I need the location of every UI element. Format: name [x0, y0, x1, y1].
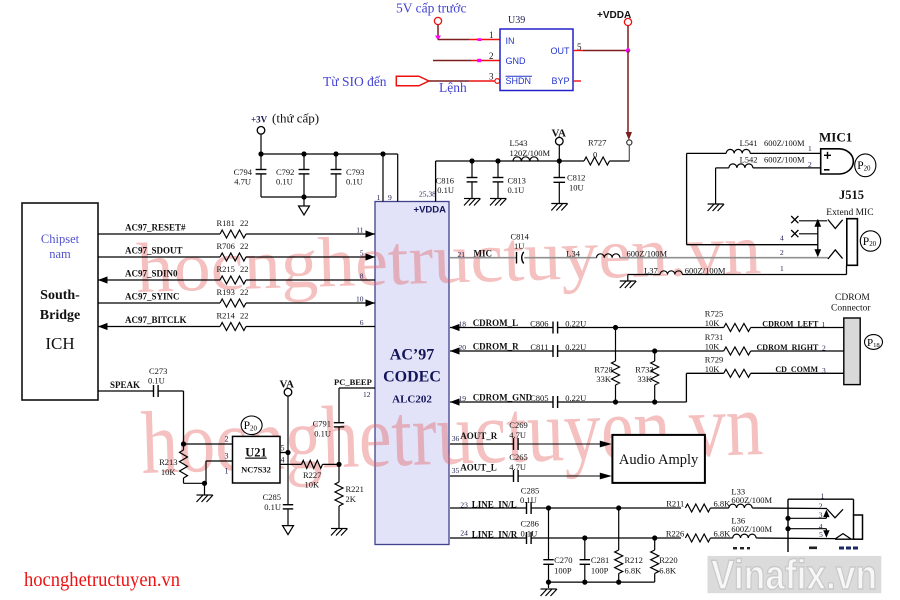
svg-text:LINE_IN/R: LINE_IN/R: [472, 529, 518, 539]
svg-text:2K: 2K: [346, 494, 357, 504]
svg-text:C805: C805: [530, 393, 548, 403]
svg-text:GND: GND: [506, 56, 527, 66]
svg-text:2: 2: [780, 248, 784, 257]
svg-text:2: 2: [225, 435, 229, 444]
svg-text:ICH: ICH: [45, 334, 74, 353]
svg-text:0.1U: 0.1U: [148, 376, 165, 386]
svg-text:22: 22: [240, 287, 249, 297]
svg-text:L542: L542: [740, 155, 758, 165]
svg-text:L34: L34: [566, 249, 580, 259]
svg-text:1U: 1U: [514, 241, 524, 251]
svg-text:6.8K: 6.8K: [659, 566, 677, 576]
svg-text:L541: L541: [740, 138, 758, 148]
svg-text:C265: C265: [509, 452, 527, 462]
svg-text:R181: R181: [217, 218, 235, 228]
svg-text:33K: 33K: [637, 374, 653, 384]
svg-text:MIC: MIC: [474, 249, 493, 259]
svg-text:C273: C273: [149, 366, 167, 376]
svg-text:1: 1: [821, 492, 825, 501]
svg-text:10K: 10K: [705, 318, 721, 328]
svg-text:0.1U: 0.1U: [521, 529, 538, 539]
svg-text:CDROM_RIGHT: CDROM_RIGHT: [757, 343, 819, 352]
svg-text:C816: C816: [436, 176, 454, 186]
svg-text:Connector: Connector: [831, 304, 871, 314]
svg-text:AC97_SYINC: AC97_SYINC: [125, 292, 180, 302]
svg-text:AC97_SDOUT: AC97_SDOUT: [125, 246, 183, 256]
svg-text:R727: R727: [588, 138, 606, 148]
svg-text:R725: R725: [705, 309, 723, 319]
svg-text:3: 3: [819, 511, 823, 520]
svg-text:CD_COMM: CD_COMM: [775, 365, 818, 374]
svg-text:23: 23: [460, 500, 468, 509]
svg-text:1: 1: [225, 467, 229, 476]
svg-text:IN: IN: [506, 36, 515, 46]
svg-text:SHDN: SHDN: [506, 76, 532, 86]
svg-text:U39: U39: [508, 15, 525, 26]
svg-text:C814: C814: [511, 232, 530, 242]
svg-text:35: 35: [452, 466, 460, 475]
svg-text:AC97_SDIN0: AC97_SDIN0: [125, 269, 178, 279]
svg-text:0.1U: 0.1U: [508, 185, 525, 195]
svg-text:0: 0: [593, 150, 597, 160]
svg-text:R215: R215: [217, 264, 235, 274]
svg-text:Vinafix.vn: Vinafix.vn: [711, 551, 877, 598]
svg-text:C286: C286: [521, 519, 539, 529]
svg-text:Audio Amply: Audio Amply: [619, 452, 699, 468]
svg-text:0.1U: 0.1U: [346, 177, 363, 187]
svg-text:C791: C791: [313, 419, 331, 429]
svg-text:22: 22: [240, 241, 249, 251]
svg-text:Bridge: Bridge: [40, 308, 80, 323]
svg-text:6.8K: 6.8K: [714, 529, 732, 539]
svg-text:600Z/100M: 600Z/100M: [764, 155, 805, 165]
svg-text:0.1U: 0.1U: [437, 185, 454, 195]
svg-text:C812: C812: [567, 173, 585, 183]
svg-text:C269: C269: [509, 420, 527, 430]
svg-text:10U: 10U: [569, 183, 584, 193]
svg-text:2: 2: [489, 51, 494, 61]
svg-text:R227: R227: [303, 470, 321, 480]
svg-text:33K: 33K: [596, 374, 612, 384]
svg-text:+3V: +3V: [251, 115, 268, 125]
svg-text:R731: R731: [705, 332, 723, 342]
svg-text:2: 2: [808, 160, 812, 169]
svg-text:R226: R226: [666, 529, 684, 539]
svg-text:AC97_BITCLK: AC97_BITCLK: [125, 315, 187, 325]
svg-text:R211: R211: [666, 499, 684, 509]
svg-text:10K: 10K: [705, 364, 721, 374]
svg-text:10K: 10K: [161, 467, 177, 477]
svg-text:5V cấp trước: 5V cấp trước: [396, 1, 466, 16]
svg-text:Chipset: Chipset: [41, 232, 80, 246]
svg-text:C281: C281: [591, 555, 609, 565]
svg-text:18: 18: [459, 320, 467, 329]
svg-text:C270: C270: [554, 555, 572, 565]
svg-text:10K: 10K: [705, 342, 721, 352]
svg-text:600Z/100M: 600Z/100M: [731, 524, 772, 534]
svg-text:SPEAK: SPEAK: [110, 380, 140, 390]
svg-text:R729: R729: [705, 354, 723, 364]
svg-text:CDROM: CDROM: [835, 293, 870, 303]
svg-text:19: 19: [459, 394, 467, 403]
svg-text:25,38: 25,38: [419, 190, 436, 199]
svg-text:22: 22: [240, 264, 249, 274]
svg-text:R193: R193: [217, 287, 235, 297]
svg-text:Lệnh: Lệnh: [439, 80, 467, 95]
svg-text:600Z/100M: 600Z/100M: [731, 495, 772, 505]
svg-text:R213: R213: [159, 457, 177, 467]
svg-text:AOUT_L: AOUT_L: [460, 463, 497, 473]
svg-text:R221: R221: [346, 484, 364, 494]
svg-text:4: 4: [780, 234, 784, 243]
svg-text:U21: U21: [245, 446, 267, 460]
svg-text:2: 2: [822, 344, 826, 353]
svg-text:10: 10: [356, 295, 364, 304]
svg-text:3: 3: [225, 452, 229, 461]
svg-text:5: 5: [819, 530, 823, 539]
svg-text:CODEC: CODEC: [383, 369, 441, 386]
svg-text:600Z/100M: 600Z/100M: [627, 249, 668, 259]
svg-text:1: 1: [489, 30, 494, 40]
svg-text:C285: C285: [521, 485, 539, 495]
svg-text:OUT: OUT: [551, 46, 571, 56]
svg-text:21: 21: [458, 250, 466, 259]
svg-text:+VDDA: +VDDA: [597, 10, 631, 21]
svg-text:CDROM_LEFT: CDROM_LEFT: [762, 319, 819, 328]
svg-text:LINE_IN/L: LINE_IN/L: [472, 499, 517, 509]
svg-text:ALC202: ALC202: [392, 394, 432, 406]
svg-text:R214: R214: [217, 311, 236, 321]
svg-text:20: 20: [459, 343, 467, 352]
svg-text:0.1U: 0.1U: [276, 177, 293, 187]
svg-text:9: 9: [388, 193, 392, 202]
svg-text:5: 5: [360, 249, 364, 258]
svg-text:C811: C811: [530, 342, 548, 352]
svg-text:nam: nam: [49, 247, 71, 261]
svg-text:Từ SIO đến: Từ SIO đến: [323, 74, 387, 89]
svg-text:600Z/100M: 600Z/100M: [764, 138, 805, 148]
svg-text:C793: C793: [346, 167, 364, 177]
svg-text:L543: L543: [510, 138, 528, 148]
svg-text:C792: C792: [276, 167, 294, 177]
svg-text:R220: R220: [659, 555, 677, 565]
svg-text:BYP: BYP: [551, 76, 569, 86]
svg-text:36: 36: [452, 434, 460, 443]
svg-text:AC’97: AC’97: [390, 347, 434, 364]
svg-text:R728: R728: [594, 364, 612, 374]
svg-text:5: 5: [281, 444, 285, 453]
svg-text:0.1U: 0.1U: [520, 495, 537, 505]
svg-text:J515: J515: [839, 188, 864, 202]
svg-text:AOUT_R: AOUT_R: [460, 431, 498, 441]
svg-text:4: 4: [281, 456, 285, 465]
svg-text:0.1U: 0.1U: [264, 502, 281, 512]
svg-text:2: 2: [819, 502, 823, 511]
svg-text:+VDDA: +VDDA: [414, 205, 447, 216]
svg-text:C285: C285: [263, 492, 281, 502]
svg-text:6.8K: 6.8K: [625, 566, 643, 576]
svg-text:1: 1: [377, 193, 381, 202]
svg-text:hocnghetructuyen.vn: hocnghetructuyen.vn: [24, 570, 180, 591]
svg-text:MIC1: MIC1: [819, 130, 852, 145]
svg-text:(thứ cấp): (thứ cấp): [272, 111, 319, 126]
svg-text:22: 22: [240, 218, 249, 228]
svg-text:CDROM_GND: CDROM_GND: [473, 393, 533, 403]
svg-text:C806: C806: [530, 319, 548, 329]
svg-text:100P: 100P: [591, 566, 609, 576]
svg-text:3: 3: [489, 72, 494, 82]
svg-text:NC7S32: NC7S32: [241, 465, 271, 475]
svg-text:4.7U: 4.7U: [509, 462, 526, 472]
svg-text:PC_BEEP: PC_BEEP: [334, 377, 372, 387]
svg-text:100P: 100P: [554, 566, 572, 576]
svg-text:3: 3: [822, 366, 826, 375]
svg-text:1: 1: [780, 264, 784, 273]
svg-text:5: 5: [577, 42, 582, 52]
svg-text:4.7U: 4.7U: [509, 430, 526, 440]
svg-text:CDROM_L: CDROM_L: [473, 318, 519, 328]
svg-text:1: 1: [808, 144, 812, 153]
svg-text:R706: R706: [217, 241, 235, 251]
svg-text:24: 24: [460, 529, 468, 538]
svg-text:1: 1: [822, 320, 826, 329]
svg-text:South-: South-: [40, 288, 80, 303]
svg-text:R212: R212: [625, 555, 643, 565]
svg-text:120Z/100M: 120Z/100M: [510, 148, 551, 158]
svg-text:CDROM_R: CDROM_R: [473, 342, 519, 352]
svg-text:22: 22: [240, 311, 249, 321]
svg-text:AC97_RESET#: AC97_RESET#: [125, 223, 186, 233]
svg-text:0.1U: 0.1U: [314, 429, 331, 439]
svg-text:11: 11: [356, 226, 363, 235]
svg-text:R733: R733: [635, 364, 653, 374]
svg-text:6: 6: [360, 318, 364, 327]
svg-text:C813: C813: [508, 176, 526, 186]
svg-text:8: 8: [360, 272, 364, 281]
svg-text:C794: C794: [234, 167, 253, 177]
svg-text:10K: 10K: [305, 480, 321, 490]
svg-text:Extend MIC: Extend MIC: [826, 208, 873, 218]
svg-text:12: 12: [363, 390, 371, 399]
svg-text:4.7U: 4.7U: [234, 177, 251, 187]
